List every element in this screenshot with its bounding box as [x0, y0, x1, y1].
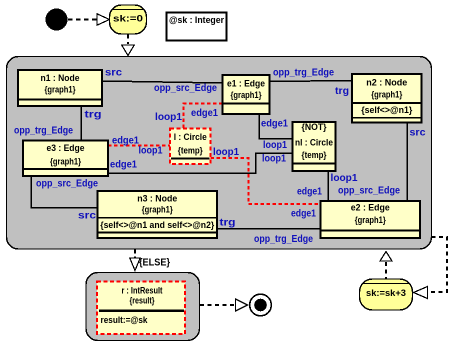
wire start to sk:=0 — [68, 19, 97, 21]
wire n2-e2 src — [406, 123, 408, 202]
svg-text:edge1: edge1 — [291, 209, 316, 220]
svg-text:loop1: loop1 — [213, 147, 239, 158]
state sk:=0 — [110, 5, 147, 34]
wire rule to sk:=sk+3 — [429, 237, 448, 292]
wire IntResult to final — [200, 304, 235, 306]
node n2 : Node — [352, 74, 422, 123]
node e2 : Edge — [321, 201, 421, 238]
svg-text:opp_src_Edge: opp_src_Edge — [338, 186, 400, 197]
node l : Circle (NAC) — [170, 129, 211, 165]
svg-text:r : IntResult: r : IntResult — [122, 286, 163, 296]
svg-text:nl : Circle: nl : Circle — [295, 137, 333, 147]
wire e3-n3 src — [31, 176, 98, 208]
svg-text:e2 : Edge: e2 : Edge — [351, 203, 390, 213]
svg-text:{graph1}: {graph1} — [50, 157, 81, 167]
wire n1-e1 src — [102, 81, 223, 83]
svg-text:{graph1}: {graph1} — [355, 215, 386, 225]
svg-text:opp_src_Edge: opp_src_Edge — [36, 179, 98, 190]
svg-text:@sk : Integer: @sk : Integer — [169, 15, 224, 25]
svg-text:trg: trg — [220, 218, 236, 229]
svg-text:loop1: loop1 — [262, 154, 286, 165]
svg-text:l : Circle: l : Circle — [174, 132, 207, 142]
node e1 : Edge — [223, 75, 270, 114]
wire n3-e2 trg — [217, 228, 321, 230]
svg-text:{result}: {result} — [130, 296, 155, 306]
svg-text:src: src — [105, 68, 122, 79]
svg-text:{graph1}: {graph1} — [231, 90, 262, 100]
svg-text:trg: trg — [335, 86, 349, 97]
svg-text:edge1: edge1 — [112, 136, 139, 147]
svg-text:{temp}: {temp} — [178, 146, 203, 156]
svg-text:{graph1}: {graph1} — [142, 205, 173, 215]
svg-text:n2 : Node: n2 : Node — [366, 77, 407, 87]
svg-text:loop1: loop1 — [155, 112, 182, 123]
svg-text:{self<>@n1 and self<>@n2}: {self<>@n1 and self<>@n2} — [100, 220, 214, 230]
svg-text:opp_trg_Edge: opp_trg_Edge — [14, 126, 73, 137]
svg-text:src: src — [410, 128, 426, 139]
svg-text:result:=@sk: result:=@sk — [101, 315, 149, 325]
wire l-e2 loop1 (NAC) — [211, 158, 321, 204]
rule graph panel — [7, 57, 432, 250]
svg-text:n3 : Node: n3 : Node — [137, 194, 177, 204]
svg-text:opp_src_Edge: opp_src_Edge — [154, 83, 217, 94]
node n3 : Node — [98, 191, 218, 238]
wire n1-e3 trg — [80, 106, 82, 141]
svg-text:src: src — [78, 211, 97, 222]
node e3 : Edge — [23, 141, 108, 177]
node nl : Circle {NOT} — [293, 122, 336, 171]
state sk:=sk+3 — [360, 279, 413, 310]
wire nl-e2 loop1 — [327, 171, 329, 201]
node n1 : Node — [18, 70, 102, 106]
svg-text:loop1: loop1 — [263, 140, 287, 151]
svg-text:edge1: edge1 — [191, 108, 218, 119]
svg-text:{NOT}: {NOT} — [302, 122, 327, 132]
wire sk:=sk+3 to rule — [380, 252, 392, 262]
initial state — [46, 9, 67, 30]
svg-text:sk:=0: sk:=0 — [113, 14, 143, 24]
svg-text:edge1: edge1 — [297, 187, 322, 198]
wire sk:=0 to rule — [127, 35, 129, 45]
svg-text:edge1: edge1 — [261, 119, 288, 130]
node r : IntResult — [97, 282, 185, 335]
wire e3-l edge1 (NAC) — [108, 145, 170, 147]
wire e1-l edge1 (NAC) — [184, 104, 223, 129]
wire e1-nl edge1 — [259, 114, 293, 139]
wire e3-nl edge1 — [108, 153, 293, 173]
wire e1-n2 trg — [270, 81, 353, 82]
svg-text:{temp}: {temp} — [302, 150, 327, 160]
final state — [250, 294, 272, 316]
svg-text:{graph1}: {graph1} — [371, 90, 402, 100]
svg-text:{graph1}: {graph1} — [45, 85, 76, 95]
node @sk : Integer — [167, 13, 227, 41]
svg-text:loop1: loop1 — [331, 173, 358, 184]
svg-text:{self<>@n1}: {self<>@n1} — [361, 105, 412, 115]
svg-text:{ELSE}: {ELSE} — [139, 258, 170, 269]
svg-text:trg: trg — [85, 110, 102, 121]
svg-text:opp_trg_Edge: opp_trg_Edge — [273, 68, 334, 79]
IntResult panel — [86, 273, 200, 341]
svg-text:edge1: edge1 — [110, 160, 137, 171]
svg-text:e3 : Edge: e3 : Edge — [47, 143, 85, 153]
svg-text:loop1: loop1 — [139, 146, 163, 157]
svg-text:sk:=sk+3: sk:=sk+3 — [366, 288, 406, 298]
wire rule to IntResult — [134, 250, 136, 258]
svg-text:opp_trg_Edge: opp_trg_Edge — [254, 234, 313, 245]
svg-text:n1 : Node: n1 : Node — [41, 73, 80, 83]
svg-text:e1 : Edge: e1 : Edge — [227, 79, 265, 89]
